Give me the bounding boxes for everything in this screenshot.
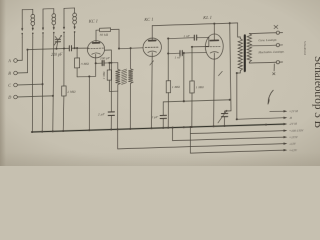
capacitor 2uF (left) — [108, 112, 114, 116]
bottom shadow — [0, 152, 320, 166]
wire anode supply rail (top) — [152, 23, 240, 41]
resistor 1 Mohm (R3) — [107, 63, 111, 92]
wire grid line right part — [72, 47, 89, 50]
capacitor 2uF (middle) — [160, 115, 166, 118]
terminal D — [7, 93, 53, 99]
resistor 1 Mohm (right of pair) — [190, 81, 194, 93]
wire V3 grid return — [192, 45, 209, 48]
wire V1 anode to 50k — [96, 30, 100, 43]
cathode tick mark V3 — [219, 71, 223, 75]
wire tone cap to bus — [224, 117, 226, 126]
tube V2 KC1 — [143, 38, 161, 57]
svg-text:1 nF: 1 nF — [175, 55, 182, 59]
svg-text:Schaleotrop 3 B: Schaleotrop 3 B — [312, 56, 320, 128]
capacitor tone (variable) — [222, 113, 228, 116]
svg-text:Schaltbild: Schaltbild — [303, 41, 307, 55]
wire 1M right to bus — [191, 93, 193, 127]
terminal speaker 2 — [276, 43, 282, 46]
tube V3 KL1 — [205, 34, 223, 60]
wire 200pF line — [96, 62, 102, 64]
resistor 2 Mohm — [62, 86, 66, 96]
paper background — [0, 0, 320, 166]
svg-text:Hochohm. Lautspr.: Hochohm. Lautspr. — [257, 49, 284, 54]
wire V1 right tap — [105, 50, 112, 63]
svg-text:200 pF: 200 pF — [100, 56, 111, 60]
tube V1 KC1 — [87, 40, 104, 58]
wire terminal A up to coil L1 pin — [21, 38, 23, 61]
svg-text:D: D — [7, 95, 11, 100]
svg-text:Gew. Lautspr.: Gew. Lautspr. — [258, 38, 277, 43]
svg-text:220 pF: 220 pF — [51, 52, 63, 57]
svg-text:KC 1: KC 1 — [143, 17, 153, 22]
wire coil pin to bus (x64) — [63, 36, 65, 86]
supply rail -B — [237, 116, 292, 122]
wire speaker tap 1 — [249, 32, 276, 35]
wire 2uF middle to bus — [162, 118, 164, 127]
wire 50k to feed vertical — [111, 28, 119, 30]
svg-text:1 nF: 1 nF — [183, 34, 190, 38]
wire 2uF link — [163, 100, 230, 115]
wire speaker tap 3 — [249, 61, 276, 63]
capacitor 1nF (grid) — [194, 35, 196, 40]
wire speaker tap 2 — [251, 44, 276, 47]
wire bus drop to rail6 — [117, 129, 119, 149]
wire T2 primary bottom down — [237, 71, 241, 118]
svg-text:2 MΩ: 2 MΩ — [67, 90, 76, 94]
wire V3 anode up — [213, 24, 215, 41]
supply rail +135V — [173, 135, 299, 143]
coil L1 (plug-in coil) — [21, 9, 35, 37]
svg-text:+2V M: +2V M — [289, 109, 298, 113]
wire terminal B up to grid wire — [27, 50, 29, 73]
switch blade — [268, 90, 273, 104]
svg-text:A: A — [7, 58, 11, 63]
transformer T2 core — [244, 35, 246, 71]
terminal C — [8, 82, 43, 88]
svg-text:2 µF: 2 µF — [151, 115, 159, 119]
transformer T1 secondary winding — [128, 69, 133, 84]
capacitor C1 220pF (series) — [69, 46, 71, 51]
svg-text:-2V M: -2V M — [289, 122, 297, 126]
wire 1M left to bus — [167, 93, 169, 128]
resistor 50 kOhm — [100, 28, 111, 32]
wire x183.8 vertical — [183, 53, 185, 101]
trimmer capacitor (variable) — [54, 35, 62, 49]
wire coil pin to bus (x43) — [41, 37, 44, 132]
wire 1nF grid line — [168, 37, 194, 40]
wire second 1nF line left — [168, 52, 180, 54]
wire x192 vertical — [191, 47, 193, 81]
supply rail -2V M — [32, 122, 298, 134]
svg-text:-B: -B — [289, 116, 292, 120]
cathode tick mark V2 — [150, 61, 154, 65]
wire V3 cathode to bus — [213, 53, 216, 126]
coil L3 (plug-in coil) — [63, 8, 77, 36]
terminal A — [7, 58, 22, 63]
wire 2uF left to bus — [110, 115, 112, 129]
wire coil pin down to grid wire (x74.6) — [74, 36, 76, 48]
wire coil pin to bus (x53.8) — [53, 37, 54, 132]
svg-text:1 MΩ: 1 MΩ — [172, 85, 181, 89]
wire V2 cathode to bus — [151, 53, 154, 129]
wire 1nF to V3 grid — [197, 37, 209, 47]
wire tone branch vertical — [230, 23, 231, 111]
wire feed vertical x119 — [118, 29, 120, 48]
wire transformer bottom link — [109, 90, 117, 92]
transformer T1 core — [122, 69, 127, 84]
svg-text:KL 1: KL 1 — [202, 15, 212, 20]
svg-text:+100-150V: +100-150V — [289, 128, 304, 132]
svg-text:KC 1: KC 1 — [88, 19, 98, 24]
capacitor 1nF (cathode) — [180, 51, 182, 56]
wire second 1nF line right — [182, 51, 206, 54]
svg-text:1 MΩ: 1 MΩ — [196, 85, 205, 89]
wire bus drop to rail4/rail7 — [189, 127, 191, 153]
supply rail +2V M — [270, 109, 298, 114]
wire V2 anode up — [151, 26, 153, 41]
svg-text:B: B — [8, 71, 11, 76]
resistor 1 Mohm (left of pair) — [166, 81, 170, 93]
wire cathode horizontal — [77, 75, 96, 78]
transformer T2 primary winding — [238, 38, 242, 70]
wire cathode node to bus — [88, 76, 90, 130]
wire V1 cathode down — [95, 54, 97, 76]
terminal speaker 1 — [276, 31, 282, 34]
coil L2 (plug-in coil) — [42, 9, 56, 37]
svg-text:2 µF: 2 µF — [98, 112, 106, 116]
wire V2 grid line — [119, 47, 143, 50]
svg-text:+135V: +135V — [289, 135, 299, 139]
wire x168 vertical — [167, 39, 169, 81]
svg-text:C: C — [8, 83, 11, 88]
supply rail -4,5V — [118, 141, 297, 152]
wire 200pF to transformer — [104, 63, 118, 70]
x mark above speaker terminals — [274, 25, 278, 28]
wire T1 primary bottom to bus — [117, 85, 119, 130]
arrow through tone capacitor — [218, 110, 227, 123]
wire T1 secondary bottom to bus — [129, 83, 131, 129]
supply rail +4,5V — [190, 148, 298, 156]
svg-text:50 kΩ: 50 kΩ — [100, 33, 109, 37]
wire T1 secondary top to V2 grid line — [130, 48, 132, 69]
supply rail +100-150V — [190, 128, 304, 136]
page left edge shading — [0, 0, 6, 166]
wire grid line left part — [28, 48, 70, 49]
wire x111 down — [110, 63, 112, 112]
transformer T1 primary winding — [116, 69, 121, 85]
wire coil pin to bus (x32.8) — [31, 37, 34, 132]
svg-text:1 MΩ: 1 MΩ — [102, 71, 106, 79]
resistor 3 Mohm — [75, 48, 80, 77]
wire tone branch corner — [225, 111, 231, 114]
wire speaker 3 down stub — [273, 64, 275, 71]
terminal B — [8, 70, 27, 76]
terminal speaker 3 — [276, 60, 282, 63]
transformer T2 secondary winding — [247, 33, 251, 62]
wire bus drop to rail5 — [172, 128, 174, 141]
small x contact mark — [273, 73, 275, 75]
svg-text:3 MΩ: 3 MΩ — [81, 61, 90, 65]
capacitor 200pF — [102, 61, 104, 66]
